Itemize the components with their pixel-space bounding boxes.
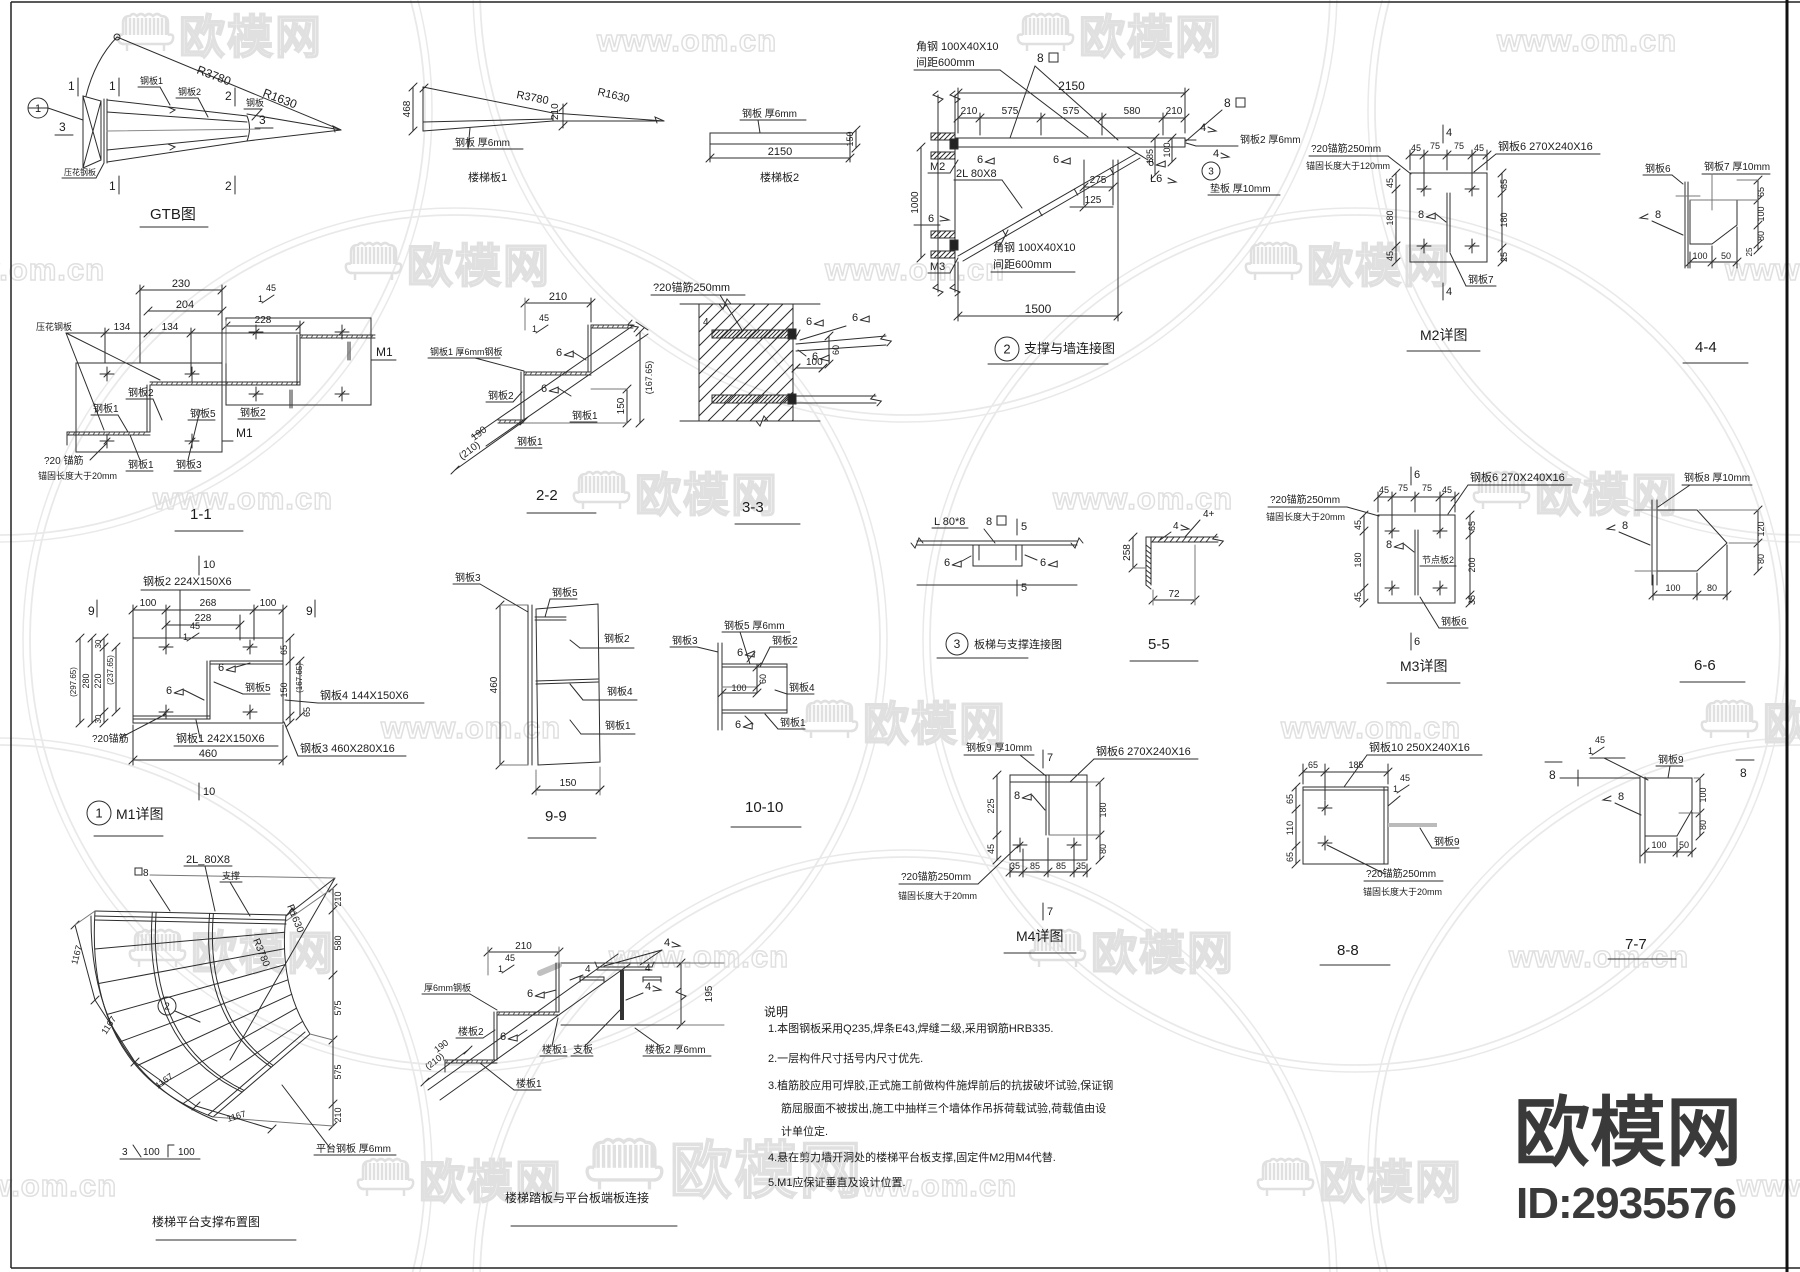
svg-text:(237.65): (237.65) [106, 655, 115, 685]
svg-text:压花钢板: 压花钢板 [36, 321, 72, 332]
svg-text:75: 75 [1422, 483, 1432, 493]
svg-text:100: 100 [260, 598, 277, 609]
svg-text:6: 6 [735, 719, 741, 731]
svg-text:1: 1 [183, 632, 188, 642]
svg-text:45: 45 [1411, 143, 1421, 153]
svg-text:2.一层构件尺寸括号内尺寸优先.: 2.一层构件尺寸括号内尺寸优先. [768, 1051, 923, 1065]
svg-text:100: 100 [1665, 583, 1680, 593]
svg-text:锚固长度大于20mm: 锚固长度大于20mm [1266, 511, 1345, 522]
svg-text:35: 35 [1010, 861, 1020, 871]
svg-text:1: 1 [109, 79, 116, 93]
svg-text:5-5: 5-5 [1148, 636, 1170, 653]
svg-text:2L_80X8: 2L_80X8 [186, 854, 230, 866]
svg-text:钢板2: 钢板2 [128, 386, 154, 399]
svg-text:欧模网: 欧模网 [1079, 11, 1223, 63]
svg-text:45: 45 [1379, 485, 1389, 495]
svg-text:65: 65 [1499, 179, 1509, 189]
svg-text:72: 72 [1168, 589, 1180, 600]
svg-text:钢板8 厚10mm: 钢板8 厚10mm [1684, 471, 1750, 484]
svg-text:钢板1: 钢板1 [140, 75, 163, 86]
svg-text:钢板2: 钢板2 [772, 634, 798, 647]
svg-text:35: 35 [1467, 595, 1477, 605]
svg-text:(297.65): (297.65) [69, 667, 78, 697]
svg-text:45: 45 [1353, 592, 1363, 602]
svg-text:M1详图: M1详图 [116, 806, 163, 822]
svg-text:3: 3 [259, 113, 266, 127]
svg-text:www.om.cn: www.om.cn [1280, 710, 1461, 745]
svg-text:6: 6 [166, 685, 172, 697]
svg-text:欧模网: 欧模网 [670, 1137, 864, 1206]
svg-text:45: 45 [190, 621, 200, 631]
svg-text:钢板4: 钢板4 [789, 681, 815, 694]
svg-text:M2详图: M2详图 [1420, 327, 1467, 343]
svg-text:75: 75 [1398, 483, 1408, 493]
svg-text:楼板1: 楼板1 [542, 1043, 568, 1056]
svg-text:楼梯平台支撑布置图: 楼梯平台支撑布置图 [152, 1214, 260, 1229]
svg-text:欧模网: 欧模网 [1091, 927, 1235, 979]
svg-text:100: 100 [178, 1147, 195, 1158]
svg-text:4: 4 [1200, 122, 1206, 134]
svg-text:钢板6 270X240X16: 钢板6 270X240X16 [1096, 744, 1191, 758]
svg-text:230: 230 [172, 278, 190, 290]
svg-text:5.M1应保证垂直及设计位置.: 5.M1应保证垂直及设计位置. [768, 1175, 906, 1189]
svg-text:楼板2 厚6mm: 楼板2 厚6mm [645, 1043, 706, 1056]
svg-text:100: 100 [731, 683, 746, 693]
svg-text:180: 180 [1098, 802, 1108, 817]
svg-text:100: 100 [1698, 787, 1708, 802]
svg-text:185: 185 [1348, 760, 1363, 770]
svg-text:4+: 4+ [1203, 509, 1215, 520]
svg-text:60: 60 [758, 674, 768, 684]
svg-text:45: 45 [1474, 143, 1484, 153]
svg-text:268: 268 [200, 598, 217, 609]
svg-text:3: 3 [122, 1147, 128, 1158]
svg-text:L 80*8: L 80*8 [934, 516, 965, 528]
svg-text:钢板6: 钢板6 [1441, 615, 1467, 628]
svg-text:65: 65 [1285, 794, 1295, 804]
svg-text:45: 45 [266, 283, 276, 293]
svg-text:钢板6 270X240X16: 钢板6 270X240X16 [1470, 470, 1565, 484]
svg-text:6: 6 [500, 1031, 506, 1043]
svg-text:ID:2935576: ID:2935576 [1516, 1179, 1736, 1228]
svg-text:?20锚筋250mm: ?20锚筋250mm [1270, 493, 1340, 506]
svg-text:7-7: 7-7 [1625, 936, 1647, 953]
svg-text:6: 6 [1040, 557, 1046, 569]
svg-text:欧模网: 欧模网 [407, 240, 551, 292]
svg-text:1-1: 1-1 [190, 506, 212, 523]
svg-text:3: 3 [59, 120, 66, 134]
svg-text:580: 580 [1124, 106, 1141, 117]
svg-text:钢板1 厚6mm钢板: 钢板1 厚6mm钢板 [430, 346, 503, 357]
svg-text:钢板1 242X150X6: 钢板1 242X150X6 [176, 731, 265, 745]
svg-text:M2: M2 [930, 161, 945, 173]
svg-text:85: 85 [1056, 861, 1066, 871]
svg-text:8: 8 [986, 516, 992, 528]
svg-text:210: 210 [1166, 106, 1183, 117]
svg-text:钢板3: 钢板3 [672, 634, 698, 647]
svg-text:5: 5 [1021, 521, 1027, 533]
svg-text:100: 100 [806, 357, 823, 368]
svg-text:支板: 支板 [573, 1043, 593, 1056]
svg-text:欧模网: 欧模网 [1514, 1091, 1742, 1176]
svg-text:210: 210 [961, 106, 978, 117]
svg-text:3: 3 [1208, 167, 1214, 178]
svg-text:6: 6 [218, 662, 224, 674]
svg-text:65: 65 [1308, 760, 1318, 770]
svg-text:80: 80 [1698, 820, 1708, 830]
svg-text:8: 8 [1549, 768, 1556, 782]
svg-text:钢板5: 钢板5 [190, 407, 216, 420]
svg-text:75: 75 [1430, 141, 1440, 151]
svg-text:欧模网: 欧模网 [179, 11, 323, 63]
svg-text:258: 258 [1122, 544, 1133, 561]
svg-text:钢板 厚6mm: 钢板 厚6mm [742, 107, 797, 120]
svg-text:120: 120 [1756, 521, 1766, 536]
svg-text:6: 6 [806, 316, 812, 328]
svg-text:220: 220 [93, 673, 103, 688]
svg-text:65: 65 [279, 645, 289, 655]
svg-text:支撑与墙连接图: 支撑与墙连接图 [1024, 341, 1115, 356]
svg-text:6: 6 [1414, 469, 1420, 481]
svg-text:www.om.cn: www.om.cn [152, 481, 333, 516]
svg-text:180: 180 [1499, 212, 1509, 227]
svg-text:575: 575 [1002, 106, 1019, 117]
svg-text:150: 150 [845, 131, 855, 146]
svg-text:100: 100 [1692, 251, 1707, 261]
svg-text:钢板5: 钢板5 [552, 586, 578, 599]
svg-text:钢板6: 钢板6 [1645, 162, 1671, 175]
svg-text:www.om.cn: www.om.cn [1508, 939, 1689, 974]
svg-text:1: 1 [498, 964, 503, 974]
svg-text:1: 1 [68, 79, 75, 93]
svg-text:?20锚筋250mm: ?20锚筋250mm [1366, 867, 1436, 880]
svg-text:钢板2: 钢板2 [488, 389, 514, 402]
svg-text:钢板1: 钢板1 [517, 435, 543, 448]
svg-text:6: 6 [541, 383, 547, 395]
svg-text:45: 45 [1595, 735, 1605, 745]
svg-text:欧模网: 欧模网 [1319, 1156, 1463, 1208]
svg-text:2: 2 [1003, 342, 1010, 357]
svg-text:100: 100 [140, 598, 157, 609]
svg-text:钢板1: 钢板1 [128, 458, 154, 471]
svg-text:2: 2 [164, 1002, 170, 1013]
svg-text:6: 6 [928, 213, 934, 225]
svg-text:8: 8 [1037, 51, 1044, 65]
svg-text:25: 25 [1745, 247, 1754, 256]
svg-text:134: 134 [162, 322, 179, 333]
svg-text:钢板4: 钢板4 [607, 685, 633, 698]
svg-text:65: 65 [302, 707, 312, 717]
svg-text:10: 10 [203, 786, 215, 798]
svg-text:45: 45 [539, 313, 549, 323]
svg-text:4.悬在剪力墙开洞处的楼梯平台板支撑,固定件M2用M4代替.: 4.悬在剪力墙开洞处的楼梯平台板支撑,固定件M2用M4代替. [768, 1150, 1056, 1164]
svg-text:间距600mm: 间距600mm [916, 56, 975, 69]
svg-text:钢板: 钢板 [246, 97, 264, 108]
svg-text:钢板9: 钢板9 [1434, 835, 1460, 848]
svg-text:575: 575 [333, 1064, 343, 1079]
svg-text:www.om.cn: www.om.cn [1724, 252, 1800, 287]
svg-text:板梯与支撑连接图: 板梯与支撑连接图 [974, 637, 1062, 651]
svg-text:钢板1: 钢板1 [572, 409, 598, 422]
svg-text:110: 110 [1285, 821, 1295, 835]
svg-text:8: 8 [1386, 539, 1392, 551]
svg-text:210: 210 [549, 291, 567, 303]
svg-text:85: 85 [1030, 861, 1040, 871]
svg-text:210: 210 [515, 941, 532, 952]
svg-text:钢板1: 钢板1 [780, 716, 806, 729]
svg-text:2-2: 2-2 [536, 487, 558, 504]
svg-text:钢板3 460X280X16: 钢板3 460X280X16 [300, 741, 395, 755]
svg-text:3.植筋胶应用可焊胶,正式施工前做构件施焊前后的抗拔破坏试验: 3.植筋胶应用可焊胶,正式施工前做构件施焊前后的抗拔破坏试验,保证钢 [768, 1078, 1113, 1092]
svg-text:575: 575 [1063, 106, 1080, 117]
svg-text:210: 210 [550, 103, 561, 120]
svg-text:100: 100 [143, 1147, 160, 1158]
svg-text:钢板2 厚6mm: 钢板2 厚6mm [1240, 133, 1301, 146]
svg-text:(167.65): (167.65) [644, 361, 654, 395]
svg-text:1000: 1000 [910, 191, 921, 214]
svg-text:钢板7: 钢板7 [1468, 273, 1494, 286]
svg-text:锚固长度大于20mm: 锚固长度大于20mm [898, 890, 977, 901]
svg-text:钢板1: 钢板1 [93, 402, 119, 415]
svg-text:180: 180 [1353, 552, 1363, 567]
svg-text:钢板9: 钢板9 [1658, 753, 1684, 766]
svg-text:www.om.cn: www.om.cn [608, 939, 789, 974]
svg-text:1: 1 [35, 103, 41, 115]
svg-text:?20锚筋: ?20锚筋 [92, 732, 129, 745]
svg-text:210: 210 [333, 891, 343, 906]
svg-text:M3: M3 [930, 261, 945, 273]
svg-text:楼梯板1: 楼梯板1 [468, 170, 507, 184]
svg-text:45: 45 [1385, 178, 1395, 188]
svg-text:角钢 100X40X10: 角钢 100X40X10 [916, 40, 999, 53]
svg-text:4: 4 [703, 317, 709, 328]
svg-text:45: 45 [505, 953, 515, 963]
svg-text:2: 2 [225, 179, 232, 193]
svg-text:460: 460 [199, 748, 217, 760]
svg-text:7: 7 [1047, 752, 1053, 764]
svg-text:计单位定.: 计单位定. [781, 1124, 828, 1138]
svg-text:80: 80 [1756, 231, 1766, 241]
svg-text:280: 280 [81, 673, 91, 688]
svg-text:钢板2: 钢板2 [178, 86, 201, 97]
svg-text:L6: L6 [1150, 173, 1162, 185]
svg-text:4-4: 4-4 [1695, 339, 1717, 356]
svg-text:75: 75 [1454, 141, 1464, 151]
svg-text:4: 4 [1173, 521, 1179, 532]
svg-text:8: 8 [1014, 790, 1020, 802]
svg-text:钢板9 厚10mm: 钢板9 厚10mm [966, 741, 1032, 754]
svg-text:钢板2: 钢板2 [604, 632, 630, 645]
svg-text:5: 5 [1021, 582, 1027, 594]
svg-text:压花钢板: 压花钢板 [64, 167, 96, 177]
svg-text:钢板 厚6mm: 钢板 厚6mm [455, 136, 510, 149]
svg-text:80: 80 [1707, 583, 1717, 593]
svg-text:钢板7 厚10mm: 钢板7 厚10mm [1704, 160, 1770, 173]
svg-text:1: 1 [258, 294, 263, 304]
svg-text:150: 150 [560, 778, 577, 789]
svg-text:200: 200 [1467, 557, 1477, 572]
svg-text:4: 4 [664, 937, 670, 949]
svg-text:楼板1: 楼板1 [516, 1077, 542, 1090]
svg-text:6: 6 [944, 557, 950, 569]
svg-text:4: 4 [1446, 286, 1452, 298]
svg-text:楼板2: 楼板2 [458, 1025, 484, 1038]
svg-text:60: 60 [831, 345, 841, 355]
svg-text:80: 80 [1756, 554, 1766, 564]
svg-text:65: 65 [1467, 521, 1477, 531]
svg-text:4: 4 [1446, 127, 1452, 139]
svg-text:6: 6 [1053, 154, 1059, 166]
svg-text:欧模网: 欧模网 [1307, 240, 1451, 292]
svg-text:M4详图: M4详图 [1016, 928, 1063, 944]
svg-text:钢板3: 钢板3 [455, 571, 481, 584]
svg-text:?20锚筋250mm: ?20锚筋250mm [901, 870, 971, 883]
svg-text:30: 30 [94, 714, 103, 723]
svg-text:65: 65 [1756, 187, 1766, 197]
svg-text:80: 80 [1098, 844, 1108, 854]
svg-text:50: 50 [1721, 251, 1731, 261]
svg-text:锚固长度大于20mm: 锚固长度大于20mm [1363, 886, 1442, 897]
svg-text:45: 45 [1442, 485, 1452, 495]
svg-text:钢板2: 钢板2 [240, 406, 266, 419]
svg-text:225: 225 [986, 798, 996, 813]
svg-text:4: 4 [585, 964, 591, 975]
svg-text:580: 580 [333, 935, 343, 950]
svg-text:100: 100 [1162, 142, 1172, 157]
svg-text:1: 1 [95, 806, 102, 821]
svg-text:M3详图: M3详图 [1400, 658, 1447, 674]
svg-text:50: 50 [1679, 840, 1689, 850]
svg-text:?20锚筋250mm: ?20锚筋250mm [1311, 142, 1381, 155]
svg-text:?20 锚筋: ?20 锚筋 [44, 454, 83, 467]
svg-text:9-9: 9-9 [545, 808, 567, 825]
svg-text:GTB图: GTB图 [150, 206, 196, 223]
svg-text:钢板1: 钢板1 [605, 719, 631, 732]
svg-text:8: 8 [1740, 766, 1747, 780]
svg-text:钢板6 270X240X16: 钢板6 270X240X16 [1498, 139, 1593, 153]
svg-text:www.om.cn: www.om.cn [596, 23, 777, 58]
svg-text:45: 45 [1353, 520, 1363, 530]
svg-text:7: 7 [1047, 906, 1053, 918]
svg-text:468: 468 [402, 100, 413, 117]
svg-text:www.om.cn: www.om.cn [0, 252, 105, 287]
svg-text:钢板5 厚6mm: 钢板5 厚6mm [724, 619, 785, 632]
svg-text:1: 1 [532, 324, 537, 334]
svg-text:45: 45 [986, 844, 996, 854]
svg-text:角钢 100X40X10: 角钢 100X40X10 [993, 241, 1076, 254]
svg-text:35: 35 [1076, 861, 1086, 871]
svg-text:210: 210 [333, 1107, 343, 1122]
svg-text:www.om.cn: www.om.cn [824, 252, 1005, 287]
svg-text:195: 195 [704, 985, 715, 1002]
svg-text:2150: 2150 [768, 146, 792, 158]
svg-text:575: 575 [333, 1000, 343, 1015]
svg-text:4: 4 [1213, 148, 1219, 160]
svg-text:180: 180 [1385, 210, 1395, 225]
svg-text:8: 8 [1618, 791, 1624, 803]
svg-text:钢板3: 钢板3 [176, 458, 202, 471]
svg-text:垫板 厚10mm: 垫板 厚10mm [1210, 182, 1271, 195]
svg-text:M1: M1 [376, 345, 393, 359]
svg-text:2: 2 [225, 89, 232, 103]
svg-text:2L 80X8: 2L 80X8 [956, 168, 997, 180]
svg-text:钢板5: 钢板5 [245, 681, 271, 694]
svg-text:楼梯板2: 楼梯板2 [760, 170, 799, 184]
svg-text:275: 275 [1090, 175, 1107, 186]
svg-text:钢板10 250X240X16: 钢板10 250X240X16 [1369, 740, 1470, 754]
svg-text:65: 65 [1285, 852, 1295, 862]
svg-text:150: 150 [279, 682, 289, 697]
svg-text:9: 9 [306, 604, 313, 618]
svg-text:说明: 说明 [764, 1004, 788, 1019]
svg-text:钢板2 224X150X6: 钢板2 224X150X6 [143, 574, 232, 588]
svg-text:支撑: 支撑 [222, 870, 240, 881]
svg-text:6: 6 [852, 312, 858, 324]
svg-text:欧模网: 欧模网 [1763, 698, 1800, 750]
svg-text:1: 1 [109, 179, 116, 193]
svg-text:钢板4 144X150X6: 钢板4 144X150X6 [320, 688, 409, 702]
svg-text:锚固长度大于20mm: 锚固长度大于20mm [38, 470, 117, 481]
svg-text:www.om.cn: www.om.cn [0, 1168, 117, 1203]
svg-text:25: 25 [1499, 252, 1509, 262]
svg-text:厚6mm钢板: 厚6mm钢板 [424, 982, 471, 993]
svg-text:1: 1 [1393, 784, 1398, 794]
svg-text:460: 460 [489, 676, 500, 693]
svg-text:45: 45 [1385, 251, 1395, 261]
svg-text:4: 4 [645, 981, 651, 993]
svg-text:筋屈服面不被拔出,施工中抽样三个墙体作吊拆荷载试验,荷载值由: 筋屈服面不被拔出,施工中抽样三个墙体作吊拆荷载试验,荷载值由设 [781, 1101, 1106, 1115]
svg-text:4: 4 [645, 963, 651, 974]
svg-text:30: 30 [94, 639, 103, 648]
svg-text:锚固长度大于120mm: 锚固长度大于120mm [1306, 160, 1390, 171]
svg-text:1.本图钢板采用Q235,焊条E43,焊缝二级,采用钢筋HR: 1.本图钢板采用Q235,焊条E43,焊缝二级,采用钢筋HRB335. [768, 1021, 1053, 1035]
svg-text:www.om.cn: www.om.cn [1736, 1168, 1800, 1203]
svg-text:?20锚筋250mm: ?20锚筋250mm [653, 280, 730, 294]
svg-text:185: 185 [1145, 149, 1155, 164]
svg-text:www.om.cn: www.om.cn [1496, 23, 1677, 58]
svg-text:6-6: 6-6 [1694, 657, 1716, 674]
svg-text:1500: 1500 [1025, 302, 1052, 316]
svg-text:8-8: 8-8 [1337, 942, 1359, 959]
svg-text:150: 150 [616, 397, 627, 414]
svg-text:100: 100 [1756, 206, 1766, 221]
svg-text:8: 8 [143, 868, 149, 879]
svg-text:228: 228 [255, 315, 272, 326]
svg-text:8: 8 [1655, 209, 1661, 221]
svg-text:6: 6 [977, 154, 983, 166]
svg-text:8: 8 [1224, 96, 1231, 110]
svg-text:6: 6 [737, 647, 743, 659]
svg-text:8: 8 [1622, 520, 1628, 532]
svg-text:8: 8 [1418, 209, 1424, 221]
svg-text:3-3: 3-3 [742, 499, 764, 516]
svg-text:6: 6 [556, 347, 562, 359]
svg-text:45: 45 [1400, 773, 1410, 783]
svg-text:M1: M1 [236, 426, 253, 440]
svg-text:www.om.cn: www.om.cn [380, 710, 561, 745]
svg-text:6: 6 [1414, 636, 1420, 648]
svg-text:10-10: 10-10 [745, 799, 783, 816]
svg-text:3: 3 [954, 637, 961, 651]
svg-text:9: 9 [88, 604, 95, 618]
svg-text:10: 10 [203, 559, 215, 571]
svg-text:204: 204 [176, 299, 194, 311]
svg-text:6: 6 [527, 988, 533, 1000]
svg-text:100: 100 [1651, 840, 1666, 850]
svg-text:楼梯踏板与平台板端板连接: 楼梯踏板与平台板端板连接 [505, 1190, 649, 1205]
svg-text:间距600mm: 间距600mm [993, 258, 1052, 271]
svg-text:134: 134 [114, 322, 131, 333]
